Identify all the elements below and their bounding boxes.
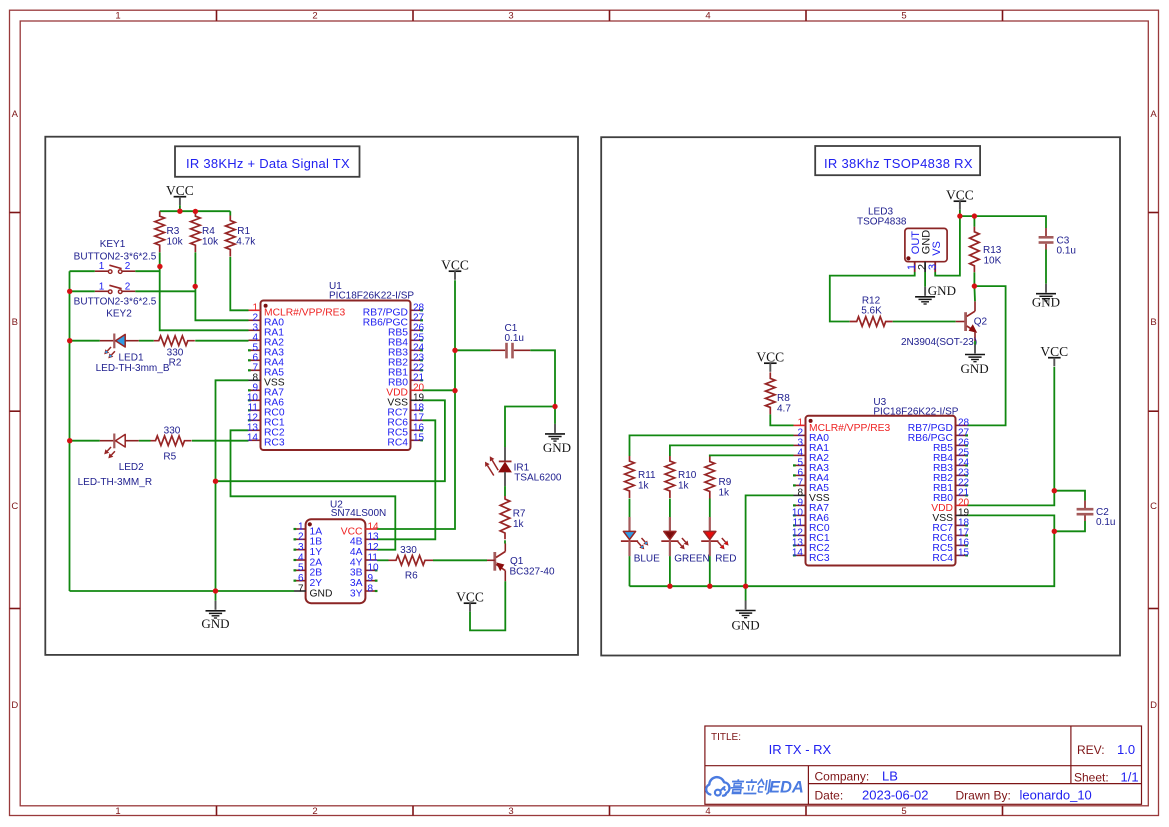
wire U1 pin8 VSS down rail — [216, 380, 249, 591]
frame column numbers top — [115, 11, 906, 22]
svg-text:BLUE: BLUE — [634, 554, 660, 565]
junction C2 bottom — [1052, 529, 1057, 534]
junction KEY2 R4 — [193, 284, 198, 289]
svg-text:1: 1 — [115, 806, 120, 817]
capacitor C2 0.1u — [1077, 501, 1116, 528]
led LED1 LED-TH-3mm_B — [96, 334, 170, 375]
wire R1 to U1 pin1 MCLR — [230, 257, 248, 310]
power flag VCC top — [166, 183, 194, 211]
junction LED2 left rail — [67, 438, 72, 443]
power flag VCC Q1 emitter — [456, 590, 484, 612]
svg-text:Drawn By:: Drawn By: — [956, 789, 1011, 803]
svg-text:4.7k: 4.7k — [236, 236, 256, 247]
resistor R6 330 — [389, 545, 434, 582]
frame column ticks bottom — [217, 806, 1003, 816]
svg-text:GND: GND — [310, 588, 333, 599]
svg-text:1k: 1k — [513, 519, 525, 530]
svg-text:LED-TH-3mm_B: LED-TH-3mm_B — [96, 363, 170, 374]
wire VCC rail to U2 pin14 — [377, 280, 455, 529]
power flag VCC U1 — [441, 258, 469, 280]
svg-text:R8: R8 — [777, 393, 790, 404]
svg-text:IR 38Khz TSOP4838 RX: IR 38Khz TSOP4838 RX — [824, 156, 973, 171]
svg-text:GND: GND — [961, 361, 989, 376]
svg-text:10k: 10k — [202, 236, 219, 247]
wire R3 to U1 pin3 RA1 — [160, 252, 249, 330]
TX title box IR 38KHz + Data Signal TX — [175, 146, 360, 177]
resistor R1 4.7k — [226, 216, 257, 257]
svg-text:GREEN: GREEN — [674, 554, 710, 565]
capacitor C1 0.1u — [491, 323, 531, 358]
wire GND row U2 pin7 — [70, 590, 295, 592]
svg-text:8: 8 — [368, 583, 374, 594]
TX block border — [45, 137, 578, 655]
svg-text:1k: 1k — [638, 480, 650, 491]
svg-text:BC327-40: BC327-40 — [510, 567, 555, 578]
wire VCC bus to R13 — [973, 216, 975, 227]
capacitor C3 0.1u — [1039, 228, 1076, 256]
resistor R7 1k — [500, 496, 526, 539]
svg-text:BUTTON2-3*6*2.5: BUTTON2-3*6*2.5 — [74, 296, 157, 307]
wire VCC right rail to U3 pin20 VDD — [968, 367, 1055, 506]
svg-text:TSOP4838: TSOP4838 — [857, 217, 907, 228]
wire VCC rail to C1 — [455, 349, 491, 351]
wire R12 to Q2 base — [893, 321, 956, 323]
svg-text:B: B — [12, 317, 18, 328]
svg-text:KEY2: KEY2 — [106, 308, 132, 319]
svg-text:C: C — [1150, 501, 1157, 512]
svg-text:5: 5 — [901, 806, 906, 817]
wire U3 pin2 RA0 to R11 — [630, 435, 794, 456]
svg-text:RC3: RC3 — [809, 553, 830, 564]
junction VCC top bus — [177, 209, 182, 214]
svg-text:VCC: VCC — [756, 350, 784, 365]
wire R7 to Q1 collector — [504, 540, 506, 543]
transistor Q1 BC327-40 PNP — [495, 544, 555, 582]
led RED — [701, 499, 736, 587]
svg-text:4.7: 4.7 — [777, 403, 791, 414]
svg-text:BUTTON2-3*6*2.5: BUTTON2-3*6*2.5 — [74, 251, 157, 262]
svg-text:Q2: Q2 — [974, 316, 988, 327]
wire R6 to Q1 base — [433, 559, 487, 561]
svg-text:TITLE:: TITLE: — [711, 732, 741, 743]
resistor R12 5.6K — [850, 296, 893, 327]
led IR1 TSAL6200 — [485, 447, 562, 486]
ground GND C3 — [1032, 250, 1060, 310]
junction VCC TSOP — [957, 213, 962, 218]
svg-text:PIC18F26K22-I/SP: PIC18F26K22-I/SP — [329, 291, 414, 302]
svg-text:LED-TH-3MM_R: LED-TH-3MM_R — [78, 477, 152, 488]
svg-text:R7: R7 — [513, 509, 526, 520]
led LED2 LED-TH-3MM_R — [78, 434, 152, 488]
wire R5 to U1 pin14 RC3 — [192, 440, 249, 442]
svg-text:GND: GND — [732, 618, 760, 633]
svg-text:3: 3 — [927, 264, 939, 270]
svg-text:5.6K: 5.6K — [861, 306, 882, 317]
svg-text:2: 2 — [125, 281, 131, 292]
svg-text:VCC: VCC — [1040, 344, 1068, 359]
wire KEY1 left to left rail — [70, 270, 95, 272]
junction GND node C1/IR1 — [552, 404, 557, 409]
junction RX GND — [743, 584, 748, 589]
RX block border — [601, 137, 1120, 655]
resistor R4 10k — [191, 211, 220, 252]
svg-text:330: 330 — [164, 426, 181, 437]
wire U1 pin19 VSS to VSS rail — [216, 400, 445, 481]
svg-text:14: 14 — [792, 548, 804, 559]
svg-text:R5: R5 — [163, 452, 176, 463]
junction KEY2 left rail — [67, 289, 72, 294]
wire LED2 to R5 — [139, 440, 151, 442]
svg-text:RED: RED — [715, 554, 736, 565]
title block Date field — [815, 788, 929, 803]
svg-text:R2: R2 — [169, 358, 182, 369]
junction Q2 collector node — [972, 283, 977, 288]
svg-text:IR 38KHz + Data Signal TX: IR 38KHz + Data Signal TX — [186, 156, 350, 171]
svg-text:LED2: LED2 — [119, 462, 144, 473]
svg-text:3: 3 — [508, 11, 513, 22]
svg-text:R10: R10 — [678, 470, 697, 481]
resistor R8 4.7 — [766, 372, 792, 414]
wire Q1 base pin — [487, 559, 495, 561]
svg-text:2: 2 — [312, 806, 317, 817]
title block Company field — [815, 769, 898, 784]
svg-text:1k: 1k — [719, 487, 731, 498]
svg-text:VCC: VCC — [456, 590, 484, 605]
wire U1 pin20 VDD to VCC rail — [423, 389, 456, 391]
svg-text:Sheet:: Sheet: — [1074, 771, 1109, 785]
svg-text:2: 2 — [125, 261, 131, 272]
frame row ticks right — [1148, 213, 1158, 609]
svg-text:GND: GND — [543, 440, 571, 455]
wire TSOP OUT to R12 — [830, 272, 915, 322]
ground GND TX — [201, 591, 229, 631]
junction GREEN gnd row — [667, 584, 672, 589]
resistor R3 10k — [155, 211, 184, 252]
svg-text:0.1u: 0.1u — [505, 333, 524, 344]
svg-text:1/1: 1/1 — [1121, 770, 1139, 785]
svg-text:D: D — [11, 700, 18, 711]
svg-text:4: 4 — [705, 806, 710, 817]
logo JLC EDA characters — [730, 779, 804, 797]
svg-text:5: 5 — [901, 11, 906, 22]
resistor R9 1k — [705, 457, 732, 499]
ground GND TSOP pin2 — [915, 272, 956, 304]
svg-text:2: 2 — [312, 11, 317, 22]
junction VSS rail wireA — [213, 479, 218, 484]
wire VCC bus to C3 — [960, 216, 1046, 228]
wire U2 pin11 to R6 — [377, 559, 389, 561]
svg-text:2023-06-02: 2023-06-02 — [862, 788, 929, 803]
resistor R10 1k — [665, 456, 697, 498]
resistor R2 330 — [154, 336, 195, 369]
wire Q2 collector — [973, 286, 976, 301]
wire R2 to U1 pin4 RA2 — [195, 340, 248, 342]
wire R4 to U1 pin2 RA0 — [195, 252, 248, 320]
svg-text:Company:: Company: — [815, 770, 870, 784]
wire KEY2 right to R4 rail — [135, 290, 195, 292]
switch KEY1 BUTTON2-3*6*2.5 — [74, 239, 157, 273]
svg-text:1k: 1k — [678, 480, 690, 491]
wire U3 pin4 RA2 to R9 — [710, 455, 794, 456]
svg-text:REV:: REV: — [1077, 743, 1105, 757]
svg-text:RC4: RC4 — [387, 438, 408, 449]
svg-text:TSAL6200: TSAL6200 — [514, 473, 562, 484]
wire Q2 collector node to U3 pin28 — [968, 286, 1006, 425]
title block Sheet field — [1074, 770, 1139, 785]
svg-text:15: 15 — [413, 433, 425, 444]
frame row letters right — [1150, 109, 1157, 711]
led BLUE — [621, 499, 660, 587]
resistor R13 10K — [970, 227, 1002, 272]
svg-text:B: B — [1150, 317, 1156, 328]
svg-text:R13: R13 — [983, 245, 1002, 256]
svg-text:RC3: RC3 — [264, 438, 285, 449]
transistor Q2 2N3904 NPN — [901, 301, 987, 348]
wire left rail vertical — [69, 271, 71, 591]
svg-text:RC4: RC4 — [932, 553, 953, 564]
ground GND C1 node — [543, 407, 571, 455]
wire R1 top — [229, 211, 231, 215]
ground GND RX — [732, 586, 760, 632]
svg-text:R9: R9 — [719, 477, 732, 488]
svg-text:1: 1 — [115, 11, 120, 22]
wire U3 pin8 VSS to GND — [746, 495, 794, 586]
svg-text:VS: VS — [931, 241, 943, 256]
wire U3 pin19 VSS to GND row — [630, 515, 1055, 586]
title block TITLE field — [711, 732, 832, 757]
svg-text:0.1u: 0.1u — [1057, 245, 1076, 256]
power flag VCC right — [1040, 344, 1068, 366]
wire R8 to U3 pin1 MCLR — [770, 414, 793, 425]
frame row letters left — [11, 109, 18, 711]
frame row ticks left — [10, 213, 21, 609]
svg-text:1: 1 — [99, 261, 105, 272]
junction R4 top bus — [193, 209, 198, 214]
svg-text:3Y: 3Y — [350, 588, 363, 599]
frame column numbers bottom — [115, 806, 906, 817]
svg-text:IR TX - RX: IR TX - RX — [769, 742, 832, 757]
wire C2 bottom branch — [1054, 521, 1085, 531]
junction C1 VCC rail — [452, 348, 457, 353]
led GREEN — [661, 499, 709, 587]
junction C2 top — [1052, 488, 1057, 493]
svg-text:R1: R1 — [237, 226, 250, 237]
title block REV field — [1077, 742, 1135, 757]
junction LED1 left rail — [67, 338, 72, 343]
microcontroller U3 PIC18F26K22-I/SP — [792, 397, 970, 566]
title block border — [705, 726, 1142, 804]
logic gate U2 SN74LS00N — [294, 499, 387, 603]
svg-text:3: 3 — [508, 806, 513, 817]
wire IR1 to R7 — [504, 486, 506, 496]
wire GND node to IR1 top — [505, 407, 555, 448]
wire C1 right down to GND node — [530, 350, 555, 406]
RX title box IR 38Khz TSOP4838 RX — [815, 146, 980, 175]
svg-text:1.0: 1.0 — [1117, 742, 1135, 757]
svg-text:0.1u: 0.1u — [1096, 517, 1115, 528]
wire R13 to Q2 collector — [973, 272, 975, 286]
svg-text:VCC: VCC — [946, 188, 974, 203]
svg-text:A: A — [12, 109, 19, 120]
svg-text:Q1: Q1 — [510, 556, 524, 567]
wire U3 pin3 RA1 to R10 — [670, 445, 794, 456]
power flag VCC R8 — [756, 350, 784, 372]
svg-text:10K: 10K — [984, 256, 1002, 267]
svg-text:R6: R6 — [405, 571, 418, 582]
ir receiver LED3 TSOP4838 — [857, 206, 947, 272]
svg-text:VCC: VCC — [441, 258, 469, 273]
svg-text:2N3904(SOT-23): 2N3904(SOT-23) — [901, 337, 977, 348]
wire KEY1 right to R3 rail — [135, 270, 159, 272]
svg-text:EDA: EDA — [769, 779, 804, 797]
wire LED1 to R2 — [139, 340, 154, 342]
svg-text:10k: 10k — [167, 236, 184, 247]
svg-text:leonardo_10: leonardo_10 — [1020, 788, 1092, 803]
wire left rail to LED1 — [70, 340, 100, 342]
svg-text:C: C — [11, 501, 18, 512]
wire VCC to Q1 emitter — [470, 581, 505, 630]
junction KEY1 R3 — [157, 264, 162, 269]
wire U1 pin13 RC2 to U2 pin12 4A — [231, 430, 396, 549]
wire C2 top branch — [1054, 491, 1085, 501]
logo JLC EDA cloud icon — [706, 777, 729, 796]
svg-text:14: 14 — [247, 433, 259, 444]
svg-text:R3: R3 — [167, 226, 180, 237]
svg-text:GND: GND — [201, 616, 229, 631]
svg-text:A: A — [1150, 109, 1157, 120]
switch KEY2 BUTTON2-3*6*2.5 — [74, 281, 157, 319]
svg-text:LB: LB — [882, 769, 898, 784]
svg-text:LED1: LED1 — [119, 352, 144, 363]
junction R13 top — [972, 213, 977, 218]
junction GND row — [213, 588, 218, 593]
frame column ticks top — [217, 10, 1003, 21]
svg-text:330: 330 — [400, 545, 417, 556]
svg-text:15: 15 — [958, 548, 970, 559]
wire TSOP VS to VCC — [935, 216, 960, 276]
svg-text:PIC18F26K22-I/SP: PIC18F26K22-I/SP — [873, 407, 958, 418]
microcontroller U1 PIC18F26K22-I/SP — [247, 281, 425, 450]
svg-text:4: 4 — [705, 11, 710, 22]
resistor R5 330 — [151, 426, 192, 463]
junction VDD VCC rail — [452, 388, 457, 393]
svg-text:Date:: Date: — [815, 789, 844, 803]
svg-text:R11: R11 — [638, 470, 656, 481]
svg-text:SN74LS00N: SN74LS00N — [331, 508, 387, 519]
wire KEY2 left — [70, 290, 95, 292]
svg-text:1: 1 — [99, 281, 105, 292]
svg-text:7: 7 — [298, 583, 304, 594]
ground GND Q2 emitter — [961, 341, 989, 376]
svg-text:R4: R4 — [202, 226, 215, 237]
wire left rail to LED2 — [70, 440, 100, 442]
svg-text:GND: GND — [1032, 295, 1060, 310]
wire U1 pin17 RC6 to U2 pin13 4B — [377, 420, 435, 539]
svg-text:KEY1: KEY1 — [100, 239, 126, 250]
title block Drawn By field — [956, 788, 1092, 803]
svg-text:GND: GND — [928, 283, 956, 298]
power flag VCC TSOP — [946, 188, 974, 217]
junction RED gnd row — [707, 584, 712, 589]
wire top bus R3-R4-R1 — [160, 210, 231, 212]
svg-text:VCC: VCC — [166, 183, 194, 198]
resistor R11 1k — [625, 456, 656, 498]
svg-text:D: D — [1150, 700, 1157, 711]
